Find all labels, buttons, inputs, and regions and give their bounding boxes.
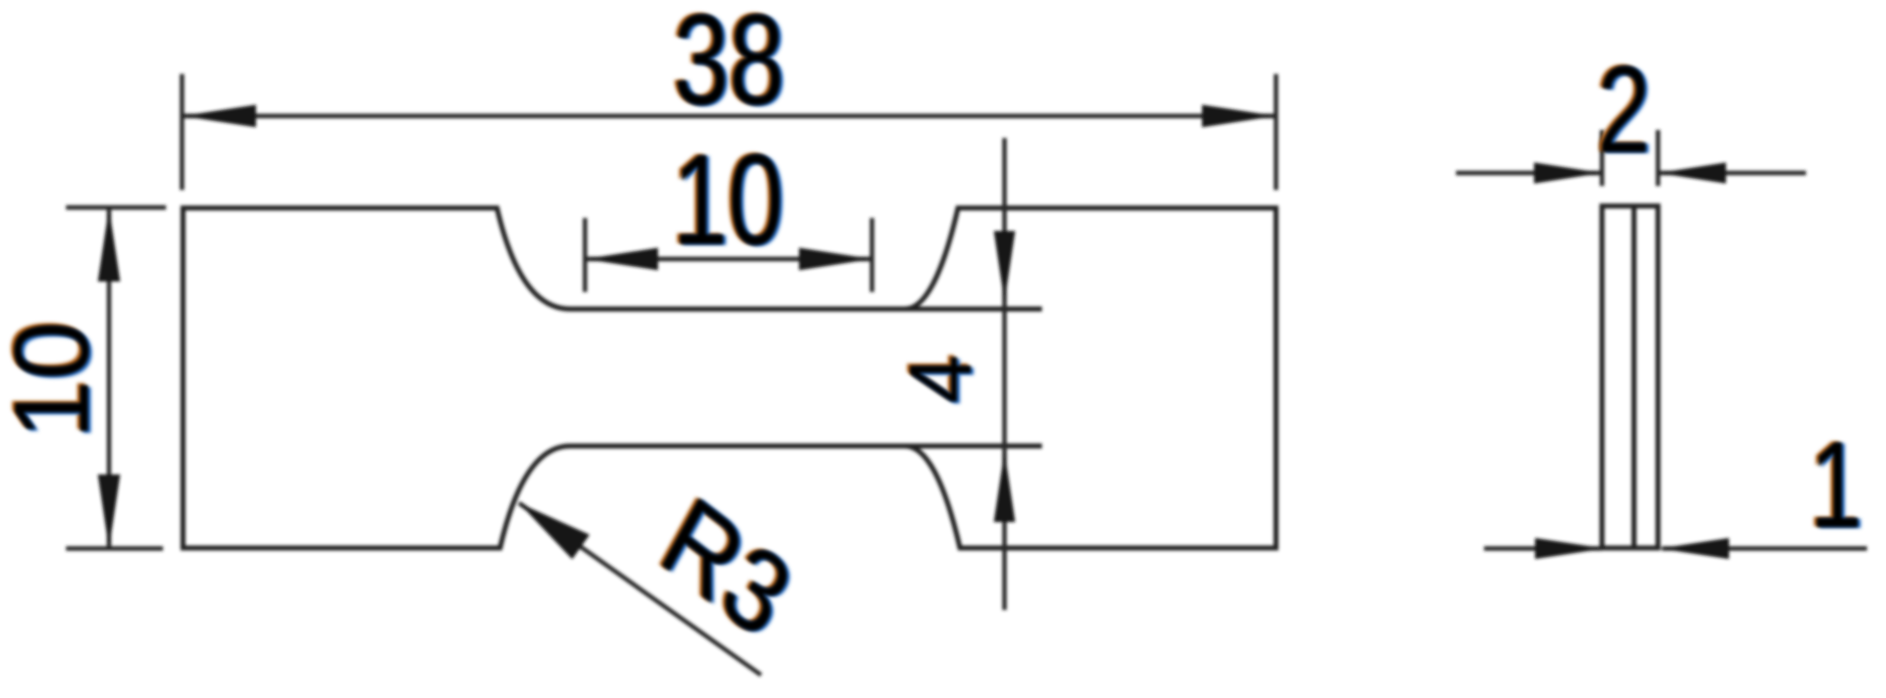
- dim 10 gauge left tick: [583, 218, 587, 292]
- arrow 2 right: [1658, 163, 1726, 184]
- dim 10 left line: [107, 208, 111, 549]
- dim 1 left line: [1484, 546, 1602, 550]
- dim 2 right line: [1658, 171, 1806, 175]
- arrow 2 left: [1534, 163, 1602, 184]
- arrow 1 left: [1535, 538, 1605, 559]
- arrow R3: [519, 503, 590, 559]
- side view internal line: [1632, 206, 1637, 548]
- dim 2 left extension line: [1600, 130, 1604, 186]
- arrow 4 top: [994, 231, 1015, 302]
- dim 1 right line: [1662, 546, 1867, 550]
- dim 10 gauge line: [585, 257, 872, 261]
- arrow 10 gauge left: [585, 248, 658, 270]
- dim 2 right extension line: [1656, 130, 1660, 186]
- arrow 10 gauge right: [799, 248, 872, 270]
- arrow 10 left bottom: [98, 475, 120, 549]
- dim 38 line: [182, 114, 1276, 118]
- specimen front view outline: [183, 208, 1276, 548]
- dim 10 left top tick: [66, 205, 166, 209]
- arrow 10 left top: [98, 208, 120, 282]
- gauge bottom extension line: [905, 444, 1042, 449]
- dim 4 line: [1002, 138, 1006, 610]
- dim 38 right extension line: [1274, 74, 1278, 190]
- arrow 4 bottom: [994, 451, 1015, 522]
- gauge top extension line: [905, 307, 1042, 312]
- dim 38 left extension line: [180, 74, 184, 190]
- dim 10 gauge right tick: [870, 218, 874, 292]
- leader R3: [519, 503, 761, 675]
- dim 2 left line: [1456, 171, 1602, 175]
- side view rectangle: [1602, 206, 1658, 548]
- arrow 1 right: [1659, 538, 1729, 559]
- dim 10 left bottom tick: [66, 546, 163, 550]
- arrow 38 left: [182, 105, 256, 127]
- arrow 38 right: [1202, 105, 1276, 127]
